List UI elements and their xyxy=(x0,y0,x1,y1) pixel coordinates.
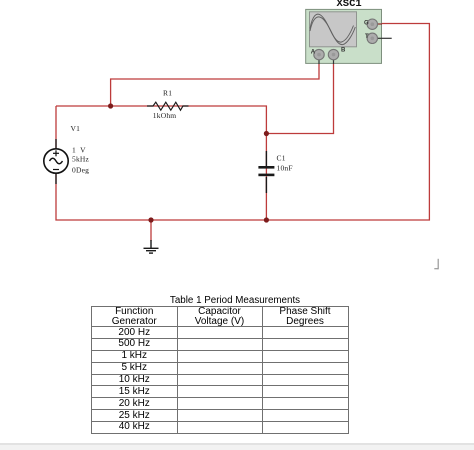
svg-text:0Deg: 0Deg xyxy=(72,165,89,174)
svg-text:1kOhm: 1kOhm xyxy=(153,111,177,120)
svg-text:1 V: 1 V xyxy=(72,145,86,154)
svg-text:R1: R1 xyxy=(163,88,172,97)
svg-text:V1: V1 xyxy=(71,124,81,133)
svg-text:T: T xyxy=(365,34,369,40)
svg-text:10nF: 10nF xyxy=(277,163,293,172)
svg-text:G: G xyxy=(364,21,369,27)
svg-text:A: A xyxy=(311,50,316,56)
svg-text:C1: C1 xyxy=(277,154,286,163)
svg-text:B: B xyxy=(341,47,346,53)
svg-text:5kHz: 5kHz xyxy=(72,154,90,163)
svg-text:XSC1: XSC1 xyxy=(337,0,362,10)
